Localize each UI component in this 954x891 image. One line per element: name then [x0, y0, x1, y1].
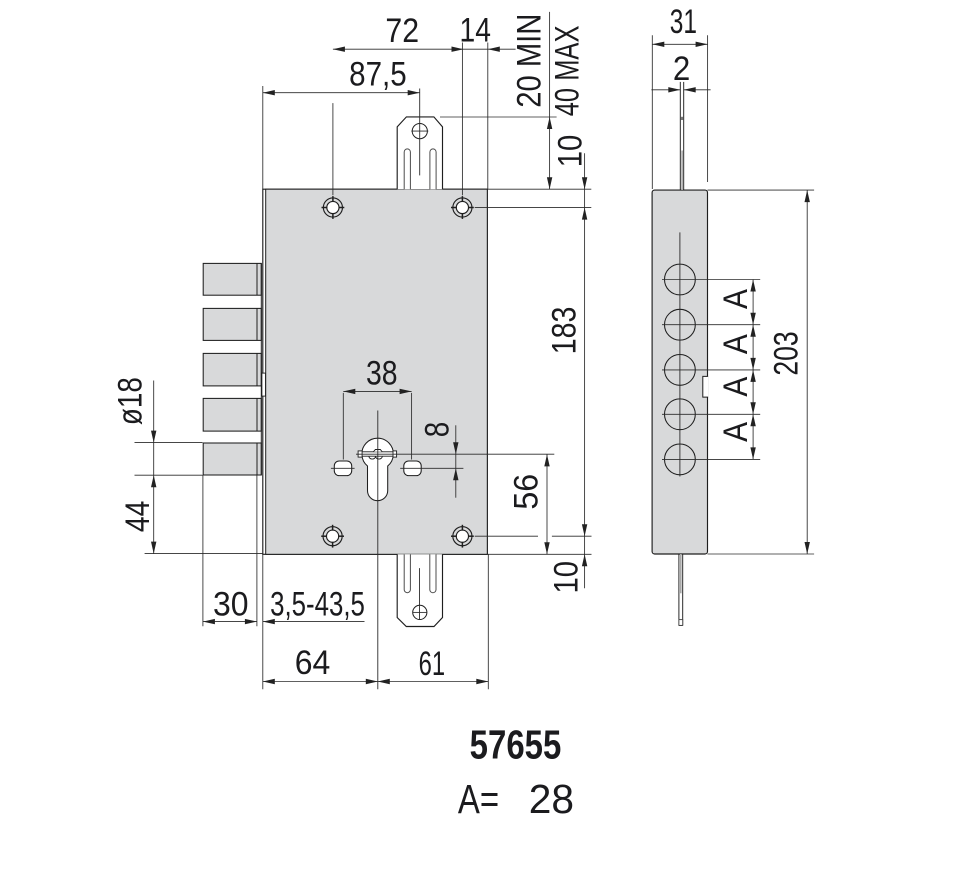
dimension line 10/183/10: [584, 153, 586, 588]
svg-text:2: 2: [673, 49, 690, 88]
bottom tab center line: [419, 568, 421, 620]
side bolt 2 center line: [662, 324, 760, 326]
dimension line 56: [546, 454, 548, 554]
dimension line 3,5-43,5: [263, 621, 365, 623]
side body top extension right: [708, 189, 815, 191]
bottom faceplate tab: [397, 554, 442, 626]
bottom tab left slot: [404, 554, 410, 592]
cam bar left end cap: [358, 451, 362, 457]
faceplate tab seen edge-on (gray): [681, 151, 683, 191]
bottom hole center extension a: [475, 535, 538, 537]
reference line tab top: [440, 116, 557, 118]
extension line right screw hole: [461, 43, 463, 196]
top faceplate tab: [397, 117, 442, 189]
top tab left slot: [404, 149, 410, 189]
extension line left screw hole: [332, 103, 334, 195]
extension line bolt tip: [202, 475, 204, 626]
screw hole at 332.9,207.5: [323, 198, 342, 217]
svg-text:14: 14: [460, 11, 491, 49]
left fixing hole: [334, 461, 351, 476]
bottom tab right slot: [430, 554, 436, 592]
front view lock body gray case: [266, 189, 488, 554]
dimension line 31: [652, 43, 707, 45]
dimension line A chain: [752, 280, 754, 460]
side view lock body: [652, 190, 707, 554]
svg-text:20 MIN: 20 MIN: [509, 14, 548, 108]
side bolt circle 1: [665, 264, 696, 295]
svg-text:10: 10: [550, 135, 589, 168]
body top edge extension right: [487, 188, 591, 190]
top tab center line / 87,5 extension: [419, 89, 421, 176]
extension line bolt bottom: [135, 474, 203, 476]
svg-text:10: 10: [546, 561, 585, 594]
side body bottom extension right: [708, 553, 815, 555]
svg-text:72: 72: [385, 11, 419, 49]
extension line bolt top: [135, 442, 203, 444]
side bolt circle 2: [665, 309, 696, 340]
dimension line 2 left: [651, 89, 680, 91]
deadbolt block 4: [203, 398, 261, 431]
dimension line 87,5: [263, 92, 420, 94]
screw hole at 462.4,536.2: [453, 527, 472, 546]
deadbolt block 2: [203, 308, 261, 340]
extension line bolt face: [256, 475, 258, 626]
left fixing hole center tick: [331, 467, 355, 469]
extension line 38 right: [411, 393, 413, 460]
svg-text:28: 28: [529, 776, 574, 822]
svg-text:A: A: [716, 288, 754, 309]
body bottom extension left: [145, 553, 263, 555]
deadbolt block 4 face line: [256, 398, 258, 431]
deadbolt block 3 face line: [256, 353, 258, 386]
svg-text:ø18: ø18: [111, 377, 149, 425]
svg-text:40 MAX: 40 MAX: [549, 26, 586, 117]
right fixing hole: [404, 461, 421, 476]
bottom tab screw hole: [413, 605, 427, 619]
svg-text:A=: A=: [458, 776, 499, 822]
side bolt 4 center line: [662, 413, 760, 415]
svg-text:38: 38: [366, 354, 398, 392]
dimension line 2 right: [684, 89, 711, 91]
top tab right slot: [430, 149, 436, 189]
dimension line 203: [806, 190, 808, 554]
svg-text:31: 31: [670, 3, 697, 41]
keyway wiggle below bar: [369, 456, 382, 459]
screw hole at 332.6,536.2: [323, 527, 342, 546]
dimension line 14 tail: [464, 48, 516, 50]
right fixing hole center line to 8 dim: [400, 467, 463, 469]
faceplate latch notch (front view): [262, 373, 266, 396]
deadbolt block 5: [203, 443, 261, 475]
svg-text:8: 8: [418, 422, 456, 438]
extension line 38 left: [342, 393, 344, 460]
deadbolt block 5 face line: [256, 443, 258, 475]
side bolt 3 center line: [662, 369, 760, 371]
faceplate front edge across bolts: [260, 263, 262, 475]
cylinder horiz center line to 56 dim: [356, 453, 554, 455]
svg-text:203: 203: [767, 331, 805, 375]
dimension line 38: [343, 390, 411, 392]
svg-text:64: 64: [295, 643, 331, 681]
svg-text:30: 30: [213, 584, 249, 622]
deadbolt block 1 face line: [256, 263, 258, 295]
side bolt 5 center line: [662, 458, 760, 460]
svg-text:44: 44: [118, 501, 156, 532]
faceplate edge above body: [679, 82, 681, 190]
screw hole at 462.4,207.5: [453, 198, 472, 217]
side bolt circle 3: [665, 355, 696, 386]
side bolt 1 center line: [662, 279, 760, 281]
svg-text:3,5-43,5: 3,5-43,5: [270, 586, 365, 623]
svg-text:56: 56: [508, 474, 546, 510]
dimension line ø18 / 44: [153, 381, 155, 554]
dimension line 64/61: [263, 681, 489, 683]
extension line body right edge (top): [487, 43, 489, 190]
body bottom edge extension right: [487, 553, 591, 555]
svg-text:87,5: 87,5: [349, 55, 407, 93]
extension line side left: [651, 35, 653, 189]
deadbolt block 2 face line: [256, 308, 258, 340]
svg-text:57655: 57655: [470, 721, 562, 767]
dimension line 8: [455, 425, 457, 497]
side bolt circle 4: [665, 399, 696, 430]
dimension line 72: [333, 48, 464, 50]
extension line body right (bottom): [487, 554, 489, 689]
side bolts vertical center line: [679, 232, 681, 476]
bottom hole center extension b: [552, 535, 592, 537]
svg-text:183: 183: [545, 307, 583, 355]
top tab hole crosshair: [411, 130, 428, 132]
extension line faceplate (bottom): [262, 554, 264, 689]
top tab screw hole: [412, 124, 427, 139]
svg-text:61: 61: [419, 645, 445, 683]
bottom tab hole crosshair: [413, 611, 427, 613]
dimension line 30: [203, 621, 257, 623]
cam bar right end cap: [393, 451, 397, 457]
svg-text:A: A: [716, 334, 754, 355]
arrow 3,5-43,5: [263, 619, 275, 624]
cylinder cam bar: [359, 452, 397, 456]
deadbolt block 1: [203, 263, 261, 295]
euro cylinder cutout: [362, 438, 394, 501]
extension line body left edge (top): [262, 86, 264, 189]
svg-text:A: A: [716, 421, 754, 442]
side view latch notch: [703, 376, 708, 397]
front view lock body outer (faceplate edge): [263, 189, 488, 554]
deadbolt block 3: [203, 353, 261, 386]
cylinder vertical center line: [377, 411, 379, 690]
keyway bump above bar: [373, 450, 382, 452]
faceplate edge below body: [678, 554, 680, 625]
side bolt circle 5: [665, 444, 696, 475]
dimension line 20MIN/40MAX: [549, 12, 551, 189]
top hole center extension right: [475, 207, 592, 209]
arrow 14 right (outside): [488, 47, 500, 52]
extension line side right: [707, 35, 709, 182]
faceplate tail gray edge: [680, 554, 682, 593]
svg-text:A: A: [716, 376, 754, 397]
